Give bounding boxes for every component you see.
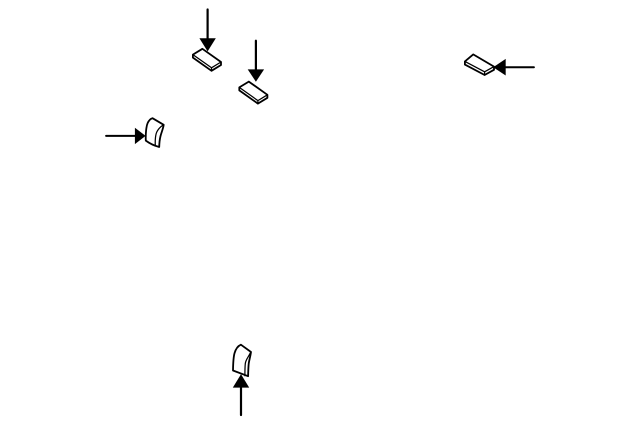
- arrow A5 head (upward): [233, 374, 249, 387]
- arrow A4 shaft: [505, 66, 534, 68]
- arrow A2 head: [248, 69, 264, 81]
- curved pad C2 thickness line: [245, 353, 251, 376]
- arrow A1 (downward) shaft: [207, 10, 209, 41]
- arrow A4 head (leftward): [493, 59, 506, 76]
- arrow A3 head: [135, 128, 146, 144]
- curved pad C2 (bottom) outline: [233, 345, 251, 377]
- arrow A1 head: [199, 38, 215, 51]
- arrow A5 shaft: [240, 386, 242, 415]
- flat pad P1 (top): [193, 49, 221, 71]
- arrow A2 (downward) shaft: [255, 41, 257, 71]
- curved pad C1 (left) outline: [146, 118, 164, 147]
- flat pad P2 (second): [239, 82, 267, 104]
- arrow A3 (rightward) shaft: [106, 135, 136, 137]
- flat pad P3 (right): [465, 54, 494, 75]
- curved pad C1 thickness line: [155, 125, 163, 146]
